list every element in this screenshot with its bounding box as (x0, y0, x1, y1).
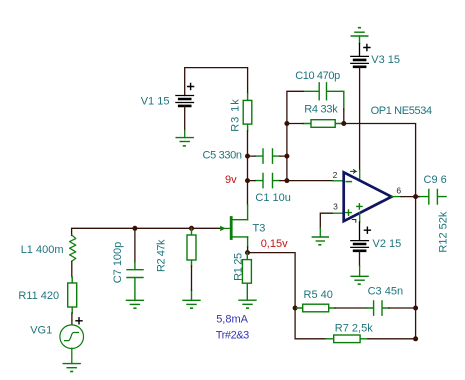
svg-text:R3 1k: R3 1k (230, 99, 242, 132)
svg-text:C1 10u: C1 10u (255, 192, 290, 204)
capacitor C5 (255, 149, 280, 163)
wire V1 top to R3 top (185, 68, 248, 96)
svg-text:L1 400m: L1 400m (21, 244, 64, 256)
resistor R4 (303, 120, 344, 128)
op-amp minus input mark (346, 181, 351, 183)
svg-text:C10 470p: C10 470p (295, 70, 340, 82)
svg-text:T3: T3 (253, 223, 266, 235)
wire V1 bottom lead (184, 106, 186, 130)
wire pin3 (320, 213, 333, 228)
VG1 plus sign (76, 318, 82, 324)
inductor L1 (70, 235, 76, 261)
svg-text:C7 100p: C7 100p (112, 242, 124, 284)
wire R5 to C3 (335, 307, 367, 309)
op-amp plus input mark (346, 210, 351, 215)
svg-text:2: 2 (333, 170, 338, 180)
wire C3 to output column (389, 307, 416, 309)
capacitor C9 (419, 190, 446, 205)
battery V2 (351, 241, 369, 251)
node R5 left (293, 306, 298, 311)
wire C5 leads (248, 155, 287, 157)
svg-text:3: 3 (333, 201, 338, 211)
node R4 right (341, 121, 346, 126)
svg-text:R4 33k: R4 33k (304, 103, 338, 115)
svg-text:R11 420: R11 420 (18, 290, 59, 302)
ground under R1 (239, 300, 256, 308)
wire C10 left loop (287, 91, 304, 123)
wire R4 left lead (287, 123, 303, 125)
svg-text:V2 15: V2 15 (373, 238, 402, 250)
node C5 right (284, 154, 289, 159)
svg-text:V1 15: V1 15 (141, 95, 170, 107)
V3 plus sign (364, 45, 370, 51)
wire C1 leads (248, 180, 287, 182)
wire C10 right drop (343, 109, 345, 124)
svg-text:C3 45n: C3 45n (368, 285, 403, 297)
capacitor C10 (305, 83, 344, 109)
battery V1 (176, 96, 194, 106)
ground under V2 (351, 276, 368, 284)
wire input row (72, 228, 221, 235)
wire op-amp output (392, 196, 402, 198)
svg-text:VG1: VG1 (30, 324, 52, 336)
node C3 right (413, 306, 418, 311)
node output (413, 194, 418, 199)
svg-text:9v: 9v (225, 174, 237, 186)
capacitor C1 (255, 174, 280, 188)
resistor R1 (242, 253, 251, 301)
op-amp U1 triangle (344, 172, 392, 221)
wire R2 to ground (191, 266, 193, 290)
node C1 left (245, 178, 250, 183)
VG1 waveform glyph (65, 333, 79, 341)
wire feedback node to output column (344, 124, 416, 197)
resistor R3 (243, 94, 252, 132)
svg-text:6: 6 (396, 186, 401, 196)
source VG1 (60, 325, 84, 349)
svg-text:OP1 NE5534: OP1 NE5534 (371, 105, 433, 117)
ground under VG1 (63, 364, 80, 372)
svg-text:0,15v: 0,15v (261, 238, 288, 250)
resistor R5 (297, 304, 336, 312)
svg-text:Tr#2&3: Tr#2&3 (216, 329, 250, 341)
svg-text:R12 52k: R12 52k (437, 211, 449, 252)
node C5 left (245, 154, 250, 159)
wire V2 bottom lead (359, 251, 361, 266)
V1 plus sign (188, 84, 194, 90)
wire V3 top lead (359, 44, 361, 57)
wire R11 to VG1 (71, 313, 73, 325)
ground above V3 (inverted) (351, 28, 368, 44)
wire emitter to R5 column (248, 253, 296, 308)
node emitter (245, 250, 250, 255)
svg-text:C9 6: C9 6 (424, 174, 447, 186)
node R4 left (284, 121, 289, 126)
resistor R7 (326, 335, 368, 343)
wire C9 left lead (416, 196, 419, 198)
wire T3 emitter to R1 node (247, 247, 249, 253)
node R7 right (413, 336, 418, 341)
svg-text:R5 40: R5 40 (304, 289, 333, 301)
svg-text:V3 15: V3 15 (371, 54, 400, 66)
svg-text:C5 330n: C5 330n (203, 150, 243, 162)
wire left column R3 to T3 collector (247, 131, 249, 205)
wire VG1 to ground (71, 348, 73, 363)
node C7 top (132, 226, 137, 231)
svg-text:5,8mA: 5,8mA (216, 314, 248, 326)
op-amp pin4 plus mark (357, 204, 362, 209)
ground under C7 (126, 300, 143, 308)
wire op-amp pin4 to V2 (359, 212, 361, 222)
op-amp pin7 mark (351, 170, 357, 174)
wire middle column x287 (286, 124, 288, 181)
ground under R2 (183, 300, 200, 308)
op-amp pin4 hook mark (352, 220, 356, 223)
ground at pin3 (312, 237, 328, 245)
T3 base arrow (220, 226, 225, 231)
resistor R2 (187, 228, 196, 300)
wire R7 to output column (368, 338, 416, 340)
V2 plus sign (364, 227, 370, 233)
transistor T3 (231, 205, 247, 247)
wire L1 to R11 (71, 262, 73, 278)
capacitor C3 (367, 301, 390, 315)
resistor R11 (68, 277, 77, 313)
svg-text:R7 2,5k: R7 2,5k (335, 322, 373, 334)
node R2 top (189, 226, 194, 231)
wire R7 row left (295, 308, 326, 339)
wire output column down (415, 197, 417, 339)
node C1 right (284, 178, 289, 183)
battery V3 (351, 56, 369, 66)
wire V3 bottom to op-amp pin 7 (359, 67, 361, 170)
capacitor C7 (134, 228, 136, 262)
svg-text:R1 25: R1 25 (233, 253, 245, 281)
ground under V1 (176, 138, 193, 146)
wire pin2 (287, 180, 333, 182)
svg-text:R2 47k: R2 47k (156, 239, 168, 272)
